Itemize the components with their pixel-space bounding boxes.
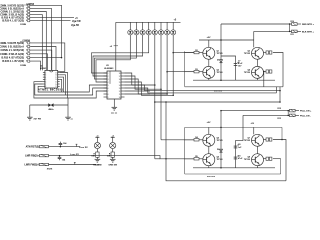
base resistor R5 Q6: [184, 158, 194, 160]
svg-text:16: 16: [119, 79, 121, 81]
U3 left pin 7: [104, 90, 108, 92]
LED D4: [148, 22, 150, 30]
svg-text:XXXX: XXXX: [47, 168, 53, 170]
svg-text:PULL DN +: PULL DN +: [300, 111, 312, 113]
wire J2 pin2: [31, 47, 56, 71]
U3 internal input line: [109, 71, 111, 84]
wire column to bridge A input 2: [166, 35, 168, 94]
wire motor A terminal 1 wrap: [273, 53, 283, 87]
svg-text:CONN: CONN: [20, 24, 27, 26]
wire J1 pin3: [31, 12, 46, 71]
svg-text:4MHz: 4MHz: [48, 108, 53, 111]
wire J1 pin1: [31, 5, 62, 57]
U1 right pin 16: [58, 78, 60, 80]
pullup junction link: [289, 24, 291, 31]
wire column to bridge B input 2: [154, 35, 156, 159]
wire J1 pin5 +5V: [31, 17, 74, 19]
lamp RED SW: [94, 142, 100, 148]
wire Q1-Q2: [208, 59, 210, 66]
svg-text:BLK MTR +: BLK MTR +: [302, 31, 314, 33]
svg-text:RED SW: RED SW: [93, 164, 101, 166]
wire resistor-ground RED SW: [96, 157, 98, 159]
wire column to bridge B input 1: [160, 35, 162, 140]
wire U3 out p11 stub: [125, 90, 151, 92]
base resistor R3 Q2: [184, 71, 194, 73]
wire Q3-Q4: [257, 59, 259, 66]
module left edge motor B: [184, 127, 186, 174]
row3 tap mark: [74, 162, 76, 164]
U1 right pin 14: [58, 83, 60, 85]
motor B terminal 2: [264, 158, 267, 160]
wire U3 out p8 bus: [125, 82, 174, 95]
wire outer wrap loop: [166, 102, 286, 181]
svg-text:B.R.B 4. L B7 2(22): B.R.B 4. L B7 2(22): [2, 60, 24, 63]
wire crystal right leg: [67, 98, 69, 117]
LED D2: [135, 22, 137, 30]
svg-text:2: 2: [108, 76, 109, 78]
wire resistor-ground GRN SW: [112, 157, 114, 159]
wire U3 out p10 long bus 2: [125, 88, 277, 93]
U1 left pin 5: [43, 78, 45, 80]
wire Q7-Q8: [257, 146, 259, 153]
svg-text:Vga-5R: Vga-5R: [71, 25, 79, 27]
svg-text:7: 7: [108, 91, 109, 93]
pull resistor R13: [290, 114, 296, 117]
+5V rail motor A: [199, 39, 254, 41]
svg-text:AT89C: AT89C: [40, 67, 47, 70]
wire J2 pin3: [31, 50, 52, 70]
U1 right pin 17: [58, 76, 60, 78]
wire pull line 2: [243, 114, 290, 116]
wire SDA line: [221, 23, 292, 25]
wire J1 pin2: [31, 8, 52, 70]
svg-text:10: 10: [119, 97, 121, 99]
svg-text:D2: D2: [217, 149, 219, 151]
svg-text:LMR FW(2)A: LMR FW(2)A: [25, 164, 40, 167]
wire J2 pin1: [31, 43, 65, 72]
wire J2 pin5: [31, 57, 62, 59]
svg-text:5: 5: [26, 57, 27, 59]
U3 right pin 17: [121, 75, 125, 77]
LED D1: [129, 22, 131, 30]
svg-text:TIP125: TIP125: [244, 53, 250, 55]
wire U1 pin19 drop: [60, 73, 68, 99]
module corner drop motor B: [281, 127, 283, 139]
svg-text:R12: R12: [278, 108, 281, 110]
wire J2 pin6: [31, 61, 41, 70]
svg-text:TIP125: TIP125: [217, 53, 223, 55]
wire rail-Q5: [208, 127, 210, 134]
wire rail-Q1: [208, 40, 210, 47]
wire J1 pin6 Vga: [31, 20, 71, 22]
svg-text:+5: +5: [112, 135, 114, 137]
svg-text:9: 9: [108, 97, 109, 99]
svg-text:TIP120: TIP120: [244, 72, 250, 74]
wire bus riser 1: [279, 87, 281, 102]
module right edge motor B: [280, 159, 282, 174]
transistor Q6 TIP120: [203, 154, 215, 166]
svg-text:ATN RST(2): ATN RST(2): [26, 146, 40, 149]
svg-text:RED MTR +: RED MTR +: [302, 24, 315, 26]
svg-text:ULN2803: ULN2803: [104, 68, 114, 70]
svg-text:CONN: CONN: [20, 65, 27, 67]
wire motor B terminal1 wrap: [273, 140, 286, 181]
ground crystal left: [27, 116, 33, 118]
pullup R11: [292, 30, 298, 33]
wire U1 pin17 drop: [60, 77, 64, 92]
LED D3: [142, 22, 144, 30]
U3 right pin 18: [121, 72, 125, 74]
wire U1 pin16 drop: [60, 79, 62, 92]
svg-text:PULL DN -: PULL DN -: [300, 115, 311, 117]
ground crystal right: [65, 116, 71, 118]
filter capacitor column C8 motor B: [236, 115, 244, 167]
module bottom edge motor A: [185, 86, 283, 88]
svg-text:6: 6: [26, 20, 27, 22]
svg-text:15: 15: [119, 82, 121, 84]
U1 right pin 18: [58, 74, 60, 76]
svg-text:1: 1: [26, 42, 27, 44]
wire rail left drop: [115, 22, 117, 71]
svg-text:3: 3: [26, 11, 27, 13]
wire J2 pin4: [31, 54, 48, 71]
svg-text:LMR RB(2)+: LMR RB(2)+: [25, 155, 39, 158]
transistor Q2 TIP120: [203, 66, 215, 78]
U3 left pin 1: [104, 72, 108, 74]
U1 left pin 4: [43, 76, 45, 78]
capacitor C2 104: [59, 156, 61, 158]
U1 left pin 2: [43, 72, 45, 74]
svg-text:+5V: +5V: [207, 122, 211, 124]
emitter bus motor A: [193, 79, 275, 81]
svg-text:Vga=5R: Vga=5R: [72, 21, 81, 23]
wire wrap bus L3: [34, 82, 107, 98]
wire diode column to U3 input: [93, 35, 143, 76]
module bottom edge motor B: [185, 173, 281, 175]
emitter bus motor B: [193, 167, 275, 169]
svg-text:R11: R11: [291, 34, 294, 36]
ground RED SW: [95, 158, 101, 160]
filter capacitor C7 motor A: [221, 56, 236, 80]
U1 left pin 3: [43, 74, 45, 76]
flyback diode column motor B: [220, 111, 222, 168]
U1 left pin 8: [43, 85, 45, 87]
U3 left pin 8: [104, 93, 108, 95]
svg-text:4: 4: [108, 82, 109, 84]
wire wrap bus L1: [38, 85, 107, 92]
U3 right pin 14: [121, 84, 125, 86]
U3 left pin 4: [104, 81, 108, 83]
svg-text:CONN. 2 L 32 B(212): CONN. 2 L 32 B(212): [0, 49, 24, 52]
wire column to bridge A input 1: [172, 35, 174, 95]
svg-text:xxx xx: xxx xx: [111, 112, 118, 114]
base resistor R2 Q1: [184, 52, 194, 54]
row1 end pin: [76, 144, 78, 146]
svg-text:GRN SW: GRN SW: [108, 164, 117, 166]
svg-text:3: 3: [108, 79, 109, 81]
transistor Q5 TIP125: [203, 134, 215, 146]
motor B terminal 1: [264, 139, 267, 141]
flyback diode column motor A: [220, 24, 222, 80]
svg-text:xxx xxx: xxx xxx: [207, 176, 216, 178]
svg-text:TIP120: TIP120: [217, 159, 223, 161]
wire diode column to U3 input: [92, 35, 149, 73]
U1 left pin 7: [43, 83, 45, 85]
U3 left pin 9: [104, 96, 108, 98]
LED D5: [154, 22, 156, 30]
wire U3 out p6 bus: [125, 76, 162, 89]
svg-text:1: 1: [108, 73, 109, 75]
U3 right pin 13: [121, 87, 125, 89]
LED D7: [166, 22, 168, 30]
wire U3 out p9 long bus 1: [125, 85, 281, 91]
+5V supply RED SW: [95, 136, 99, 138]
wire pull line 1: [221, 110, 290, 112]
wire bus line y102: [155, 101, 280, 103]
svg-text:TIP125: TIP125: [217, 140, 223, 142]
svg-text:CONN. 5 2L B(222)+A: CONN. 5 2L B(222)+A: [0, 46, 24, 49]
wire U3 out p12 stub: [125, 93, 151, 95]
capacitor C1 104: [59, 145, 61, 147]
U3 right pin 10: [121, 96, 125, 98]
motor A terminal 1: [264, 52, 267, 54]
svg-text:6: 6: [108, 88, 109, 90]
wire U3 out p5 bus: [125, 73, 155, 85]
U3 right pin 16: [121, 78, 125, 80]
wire crystal net: [30, 104, 68, 106]
IC U3 body: [107, 71, 121, 99]
ground U3: [112, 106, 118, 108]
wire RC row1: [49, 146, 81, 148]
svg-text:17: 17: [119, 76, 121, 78]
module left edge motor A: [184, 51, 186, 87]
U1 right pin 19: [58, 72, 60, 74]
svg-text:R13: R13: [278, 118, 281, 120]
wire U1 pin18 drop: [60, 75, 66, 95]
wire motor B terminal2 stub: [273, 158, 281, 160]
+5V supply GRN SW: [111, 136, 115, 138]
lamp GRN SW: [110, 142, 116, 148]
U1 right pin 15: [58, 81, 60, 83]
transistor Q4 TIP120: [252, 66, 264, 78]
U3 left pin 2: [104, 75, 108, 77]
ground GRN SW: [110, 158, 116, 160]
series resistor R22: [40, 163, 49, 165]
svg-text:TIP120: TIP120: [244, 159, 250, 161]
wire SCL line: [253, 31, 255, 40]
wire lamp-resistor RED SW: [96, 149, 98, 152]
svg-text:3: 3: [26, 49, 27, 51]
LED D6: [160, 22, 162, 30]
svg-text:CONN. 5 KEYB 5(222): CONN. 5 KEYB 5(222): [0, 42, 24, 45]
pull pair link: [287, 111, 289, 116]
wire Q5-Q6: [208, 146, 210, 153]
svg-text:TIP120: TIP120: [217, 72, 223, 74]
svg-text:8: 8: [108, 94, 109, 96]
U3 left pin 6: [104, 87, 108, 89]
wire motor A wrap riser t2: [263, 72, 265, 87]
transistor Q7 TIP125: [252, 134, 264, 146]
svg-text:ATMEL 89C2051: ATMEL 89C2051: [38, 88, 63, 92]
svg-text:B.R.B 4. L B7 2(22): B.R.B 4. L B7 2(22): [2, 20, 24, 23]
wire RC row3: [49, 164, 97, 166]
svg-text:1: 1: [26, 5, 27, 7]
svg-text:TIP125: TIP125: [244, 140, 250, 142]
U1 left pin 6: [43, 81, 45, 83]
svg-text:xxx xxx: xxx xxx: [214, 91, 223, 93]
U3 left pin 5: [104, 84, 108, 86]
transistor Q3 TIP125: [252, 47, 264, 59]
svg-text:5: 5: [108, 85, 109, 87]
svg-text:2: 2: [26, 8, 27, 10]
svg-text:6: 6: [26, 60, 27, 62]
transistor Q1 TIP125: [203, 47, 215, 59]
svg-text:+5V: +5V: [207, 37, 211, 39]
U3 right pin 15: [121, 81, 125, 83]
wire diode column to U3 input: [95, 35, 137, 79]
series resistor R21: [40, 154, 49, 156]
wire U3 ground pin: [113, 99, 115, 107]
svg-text:Lxxx XX: Lxxx XX: [70, 154, 79, 156]
wire crystal left leg: [29, 105, 31, 117]
series resistor R20: [40, 145, 49, 147]
svg-text:13: 13: [119, 88, 121, 90]
transistor Q8 TIP120: [252, 154, 264, 166]
wire rail-Q7: [253, 127, 255, 134]
crystal Y1: [48, 103, 51, 107]
wire U3 out p7 bus: [125, 79, 168, 94]
svg-text:CONN. 3 52L.B A(22): CONN. 3 52L.B A(22): [0, 53, 24, 56]
svg-text:+5: +5: [96, 135, 98, 137]
module top edge motor B: [185, 126, 282, 128]
wire lamp-resistor GRN SW: [112, 149, 114, 152]
svg-text:Vxxx XX: Vxxx XX: [79, 147, 88, 149]
wire wrap bus L2: [35, 84, 107, 95]
svg-text:X2? FM: X2? FM: [34, 119, 42, 121]
svg-text:14: 14: [119, 85, 121, 87]
motor A terminal 2: [264, 71, 267, 73]
U1 right pin 13: [58, 85, 60, 87]
wire diode column to U3 input: [96, 35, 130, 82]
IC U1 body: [45, 70, 58, 88]
svg-text:D1: D1: [217, 59, 219, 61]
U3 left pin 3: [104, 78, 108, 80]
wire bus riser 2: [276, 87, 278, 93]
wire rail-Q3: [253, 40, 255, 47]
U3 right pin 12: [121, 90, 125, 92]
wire J1 pin4: [31, 15, 42, 71]
svg-text:5: 5: [26, 17, 27, 19]
svg-text:12: 12: [119, 91, 121, 93]
wire RC row2 to motor B base: [49, 156, 195, 159]
svg-text:11: 11: [119, 94, 121, 96]
LED D8: [172, 22, 174, 30]
base resistor R4 Q5: [184, 139, 194, 141]
svg-text:18: 18: [119, 73, 121, 75]
+5V rail: [116, 21, 181, 23]
svg-text:2: 2: [26, 46, 27, 48]
U3 right pin 11: [121, 93, 125, 95]
